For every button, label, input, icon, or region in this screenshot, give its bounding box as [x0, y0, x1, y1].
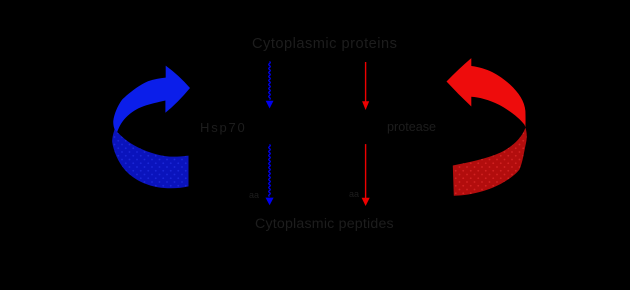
red cycle arrow (counter-clockwise, right side): bright top band and head [447, 58, 526, 128]
red straight arrow, lower segment [365, 144, 367, 198]
middle-left label: Hsp70 (beside blue dashed arrow) [200, 120, 247, 135]
top label: cytoplasmic proteins [252, 36, 397, 52]
blue squiggly dashed arrow, upper segment [269, 62, 271, 100]
blue squiggly dashed arrow, lower segment [269, 145, 271, 197]
bottom label: cytoplasmic peptides [255, 216, 394, 232]
red cycle arrow: dark lower band (3D rim) [453, 128, 527, 196]
blue arrowhead 1 [266, 101, 274, 109]
small label left of red arrowhead 2 [349, 189, 359, 199]
blue arrowhead 2 [266, 198, 274, 206]
red arrowhead 2 [362, 198, 370, 206]
red straight arrow, upper segment [365, 62, 367, 102]
red arrowhead 1 [362, 101, 369, 110]
blue cycle arrow (clockwise, left side): bright top band and head [113, 66, 190, 133]
blue cycle arrow: dark lower band (3D rim) [112, 129, 188, 188]
middle-right label: protease (beside red arrow) [387, 120, 436, 134]
small label left of blue arrowhead 2 [249, 190, 259, 200]
